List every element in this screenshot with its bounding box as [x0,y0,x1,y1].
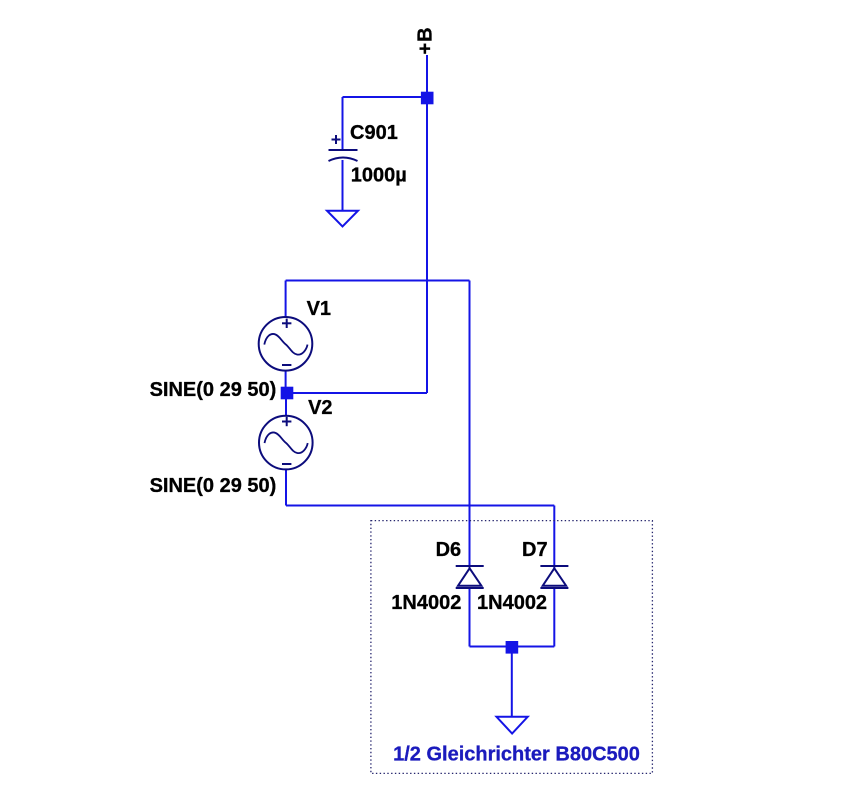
svg-text:1N4002: 1N4002 [477,592,547,614]
svg-text:SINE(0 29 50): SINE(0 29 50) [150,475,277,497]
svg-text:D6: D6 [436,539,462,561]
svg-text:D7: D7 [522,539,548,561]
svg-text:V1: V1 [307,298,331,320]
svg-text:+B: +B [415,26,437,54]
svg-text:1/2 Gleichrichter B80C500: 1/2 Gleichrichter B80C500 [393,743,640,765]
svg-text:1000µ: 1000µ [351,164,407,186]
svg-text:C901: C901 [350,122,398,144]
svg-text:SINE(0 29 50): SINE(0 29 50) [150,379,277,401]
svg-text:1N4002: 1N4002 [391,592,461,614]
svg-text:V2: V2 [308,397,332,419]
